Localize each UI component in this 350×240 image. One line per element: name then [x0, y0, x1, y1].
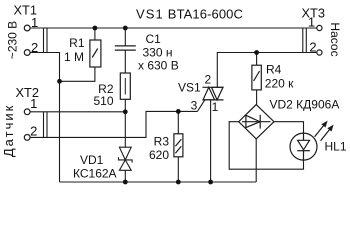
svg-text:Датчик: Датчик — [1, 104, 16, 157]
LED HL1 — [290, 122, 333, 160]
wire R1 top lead — [94, 28, 96, 40]
wire triac pin1 to rail — [210, 100, 212, 182]
node dot R3 rail — [176, 180, 181, 185]
node dot sensor R2 VD1 — [123, 109, 128, 114]
node dot top rail R1 — [93, 26, 98, 31]
bridge rectifier VD2 — [239, 105, 274, 139]
wire XT2 pin1 to node — [30, 111, 125, 113]
connector marks XT1 — [43, 28, 45, 53]
svg-text:HL1: HL1 — [325, 140, 347, 154]
svg-text:R1: R1 — [69, 36, 85, 50]
wire R4 to bridge top — [256, 90, 258, 105]
node dot R4 tap — [254, 50, 259, 55]
resistor R3 body — [174, 134, 183, 157]
terminal XT1 pin2 circle — [24, 50, 30, 56]
svg-text:Насос: Насос — [328, 22, 342, 56]
connector marks XT3 — [302, 28, 304, 53]
svg-text:1 М: 1 М — [64, 50, 84, 64]
svg-text:VS1: VS1 — [178, 81, 201, 95]
wire top rail phase — [30, 27, 316, 29]
wire gate diagonal — [197, 100, 204, 112]
resistor R1 body — [90, 40, 101, 67]
zener VD1 bidirectional — [119, 147, 133, 170]
node dot triac rail — [208, 180, 213, 185]
terminal XT3 pin1 circle — [317, 25, 322, 30]
wire R1 bottom to neutral — [60, 67, 95, 81]
wire bottom rail — [60, 181, 257, 183]
terminal XT2 pin2 circle — [24, 135, 30, 141]
svg-text:C1: C1 — [146, 32, 162, 46]
wire XT2 pin2 to gate node — [30, 111, 197, 137]
svg-text:2: 2 — [309, 39, 316, 54]
wire R3 top lead — [177, 111, 179, 133]
wire bridge right to HL1 anode — [274, 122, 304, 133]
resistor R4 body — [252, 65, 261, 90]
terminal XT3 pin2 circle — [317, 50, 322, 55]
svg-text:R4: R4 — [266, 63, 282, 77]
svg-text:1: 1 — [30, 96, 37, 111]
svg-text:2: 2 — [30, 123, 37, 138]
wire triac pin2 to XT3 pin2 — [217, 53, 316, 88]
svg-text:2: 2 — [31, 40, 38, 55]
svg-text:VD2 КД906А: VD2 КД906А — [270, 98, 340, 112]
svg-text:330 н: 330 н — [143, 46, 173, 60]
wire R4 top lead — [256, 53, 258, 66]
wire bridge left to HL1 cathode loop — [229, 122, 303, 170]
node dot VD1 rail — [123, 180, 128, 185]
svg-text:КС162А: КС162А — [73, 167, 117, 181]
wire R3 bottom lead — [177, 157, 179, 182]
svg-text:х 630 В: х 630 В — [138, 59, 179, 73]
terminal XT1 pin1 circle — [24, 25, 30, 31]
svg-text:3: 3 — [191, 99, 198, 113]
svg-text:620: 620 — [149, 148, 169, 162]
node dot gate R3 — [176, 109, 181, 114]
wire VD1 bottom lead — [124, 170, 126, 182]
capacitor C1 plates — [115, 45, 136, 47]
resistor R2 body — [120, 73, 130, 99]
wire R2 bottom lead — [124, 99, 126, 112]
svg-text:1: 1 — [31, 15, 38, 30]
svg-text:VD1: VD1 — [80, 153, 104, 167]
svg-text:VS1: VS1 — [136, 7, 164, 22]
svg-text:R3: R3 — [154, 134, 170, 148]
wire bridge bottom to rail — [255, 139, 257, 182]
svg-text:510: 510 — [93, 94, 113, 108]
connector marks XT2 — [43, 112, 45, 138]
svg-text:BTA16-600C: BTA16-600C — [168, 7, 243, 22]
triac VS1 — [203, 87, 224, 100]
wire XT1 pin2 to neutral vertical — [30, 53, 59, 183]
wire C1 top lead — [124, 28, 126, 46]
svg-text:220 к: 220 к — [265, 77, 294, 91]
svg-text:1: 1 — [308, 14, 315, 29]
wire VD1 top lead — [124, 112, 126, 147]
wire C1 to R2 — [124, 50, 126, 73]
svg-text:~230 В: ~230 В — [6, 21, 20, 59]
svg-text:1: 1 — [212, 100, 219, 114]
node dot R1 bottom neutral — [57, 79, 62, 84]
node dot top rail C1 — [123, 26, 128, 31]
terminal XT2 pin1 circle — [24, 109, 30, 115]
svg-text:2: 2 — [204, 73, 211, 87]
